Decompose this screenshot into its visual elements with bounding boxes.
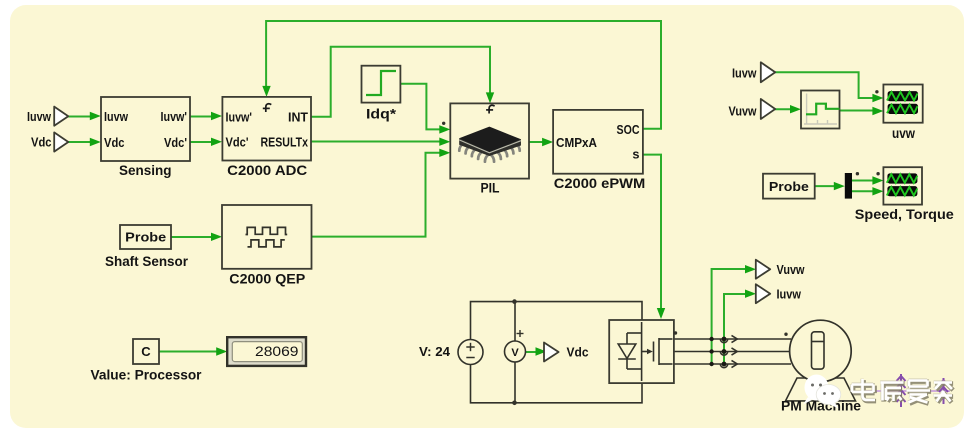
svg-text:Iuvw': Iuvw' <box>161 109 188 124</box>
svg-text:Shaft Sensor: Shaft Sensor <box>105 254 189 269</box>
svg-text:Sensing: Sensing <box>119 163 172 178</box>
svg-text:SOC: SOC <box>617 122 640 137</box>
svg-text:Vuvw: Vuvw <box>777 262 805 277</box>
svg-text:CMPxA: CMPxA <box>556 135 597 150</box>
svg-text:Vdc: Vdc <box>31 135 52 150</box>
svg-text:Speed, Torque: Speed, Torque <box>855 207 955 222</box>
svg-text:Iuvw: Iuvw <box>104 109 128 124</box>
svg-text:C2000 ADC: C2000 ADC <box>227 163 307 178</box>
svg-text:uvw: uvw <box>892 126 915 141</box>
svg-text:Vdc': Vdc' <box>226 134 249 149</box>
svg-text:V: 24: V: 24 <box>419 344 451 359</box>
svg-text:Iuvw: Iuvw <box>777 286 802 301</box>
svg-text:Vdc: Vdc <box>104 135 125 150</box>
svg-text:INT: INT <box>288 109 308 124</box>
svg-text:Iuvw: Iuvw <box>732 66 757 81</box>
svg-text:Idq*: Idq* <box>366 107 397 122</box>
svg-text:Probe: Probe <box>769 179 809 194</box>
svg-text:Value: Processor: Value: Processor <box>91 367 203 382</box>
svg-text:Iuvw': Iuvw' <box>226 109 253 124</box>
svg-text:Vuvw: Vuvw <box>729 104 757 119</box>
svg-text:Vdc: Vdc <box>567 345 589 360</box>
svg-text:28069: 28069 <box>255 343 299 359</box>
svg-text:C2000 QEP: C2000 QEP <box>229 272 305 287</box>
svg-text:V: V <box>511 347 519 359</box>
svg-text:s: s <box>632 146 639 161</box>
svg-text:PIL: PIL <box>481 181 500 196</box>
svg-text:RESULTx: RESULTx <box>261 134 309 149</box>
svg-text:C2000 ePWM: C2000 ePWM <box>554 176 646 191</box>
svg-text:Iuvw: Iuvw <box>27 109 51 124</box>
svg-text:Vdc': Vdc' <box>164 135 187 150</box>
svg-text:Probe: Probe <box>125 230 166 245</box>
svg-text:C: C <box>141 344 151 359</box>
